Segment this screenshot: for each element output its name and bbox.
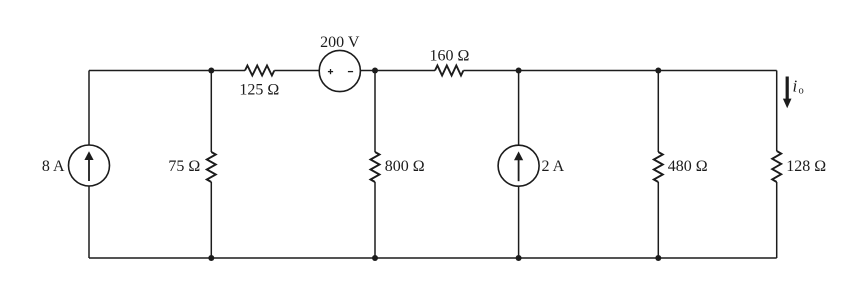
wire: bottom rail	[89, 257, 777, 259]
svg-text:480 Ω: 480 Ω	[668, 158, 708, 175]
node dot: bottom rail at 2 A branch	[516, 255, 522, 261]
node dot: bottom rail at 800 ohm branch	[372, 255, 378, 261]
svg-text:i: i	[793, 77, 798, 96]
wire: top rail left segment (left corner to 125 ohm resistor)	[89, 70, 245, 72]
wire: top rail between 125 ohm resistor and 200 V source	[274, 70, 319, 72]
wire: top rail between 200 V source and 160 ohm resistor	[360, 70, 435, 72]
node dot: top rail at 480 ohm branch	[655, 68, 661, 74]
node dot: top rail at 2 A branch	[516, 68, 522, 74]
wire: 480 ohm branch lower lead	[657, 182, 659, 258]
resistor 128 ohm (zigzag)	[772, 151, 781, 182]
node dot: bottom rail at 480 ohm branch	[655, 255, 661, 261]
arrow inside 2 A source	[514, 151, 523, 181]
svg-text:160 Ω: 160 Ω	[429, 48, 469, 65]
resistor 125 ohm (zigzag in top rail)	[245, 66, 274, 76]
wire: top rail right segment (160 ohm resistor to right corner)	[463, 70, 776, 72]
resistor 75 ohm (zigzag)	[207, 152, 216, 182]
wire: 480 ohm branch upper lead	[657, 71, 659, 153]
wire: left branch above 8 A source	[88, 71, 90, 146]
wire: 800 ohm branch upper lead	[374, 71, 376, 153]
svg-text:o: o	[799, 86, 804, 97]
svg-text:2 A: 2 A	[542, 158, 565, 175]
arrow inside 8 A source	[84, 151, 93, 181]
current source 8 A (circle)	[69, 145, 110, 186]
wire: 75 ohm branch lower lead	[210, 182, 212, 258]
minus sign inside 200 V source	[348, 71, 353, 73]
wire: left branch below 8 A source	[88, 186, 90, 258]
wire: 2 A branch lower lead	[518, 186, 520, 258]
wire: right edge lower lead (128 ohm branch)	[776, 182, 778, 258]
plus sign inside 200 V source	[328, 69, 333, 74]
resistor 160 ohm (zigzag in top rail)	[435, 66, 463, 76]
svg-text:128 Ω: 128 Ω	[786, 158, 826, 175]
current source 2 A (circle)	[498, 145, 539, 186]
svg-text:8 A: 8 A	[42, 158, 65, 175]
node dot: top rail at 800 ohm branch	[372, 68, 378, 74]
current arrow i_o (branch current into 128 ohm)	[783, 77, 792, 109]
svg-text:75 Ω: 75 Ω	[168, 158, 200, 175]
wire: right edge upper lead (128 ohm branch)	[776, 71, 778, 152]
svg-text:200 V: 200 V	[320, 34, 360, 51]
node dot: bottom rail at 75 ohm branch	[208, 255, 214, 261]
svg-text:125 Ω: 125 Ω	[239, 81, 279, 98]
resistor 480 ohm (zigzag)	[654, 152, 663, 182]
node dot: top rail at 75 ohm branch	[208, 68, 214, 74]
wire: 2 A branch upper lead	[518, 71, 520, 146]
wire: 800 ohm branch lower lead	[374, 182, 376, 258]
resistor 800 ohm (zigzag)	[371, 152, 380, 182]
wire: 75 ohm branch upper lead	[210, 71, 212, 153]
voltage source 200 V (circle)	[319, 50, 360, 91]
svg-text:800 Ω: 800 Ω	[385, 158, 425, 175]
